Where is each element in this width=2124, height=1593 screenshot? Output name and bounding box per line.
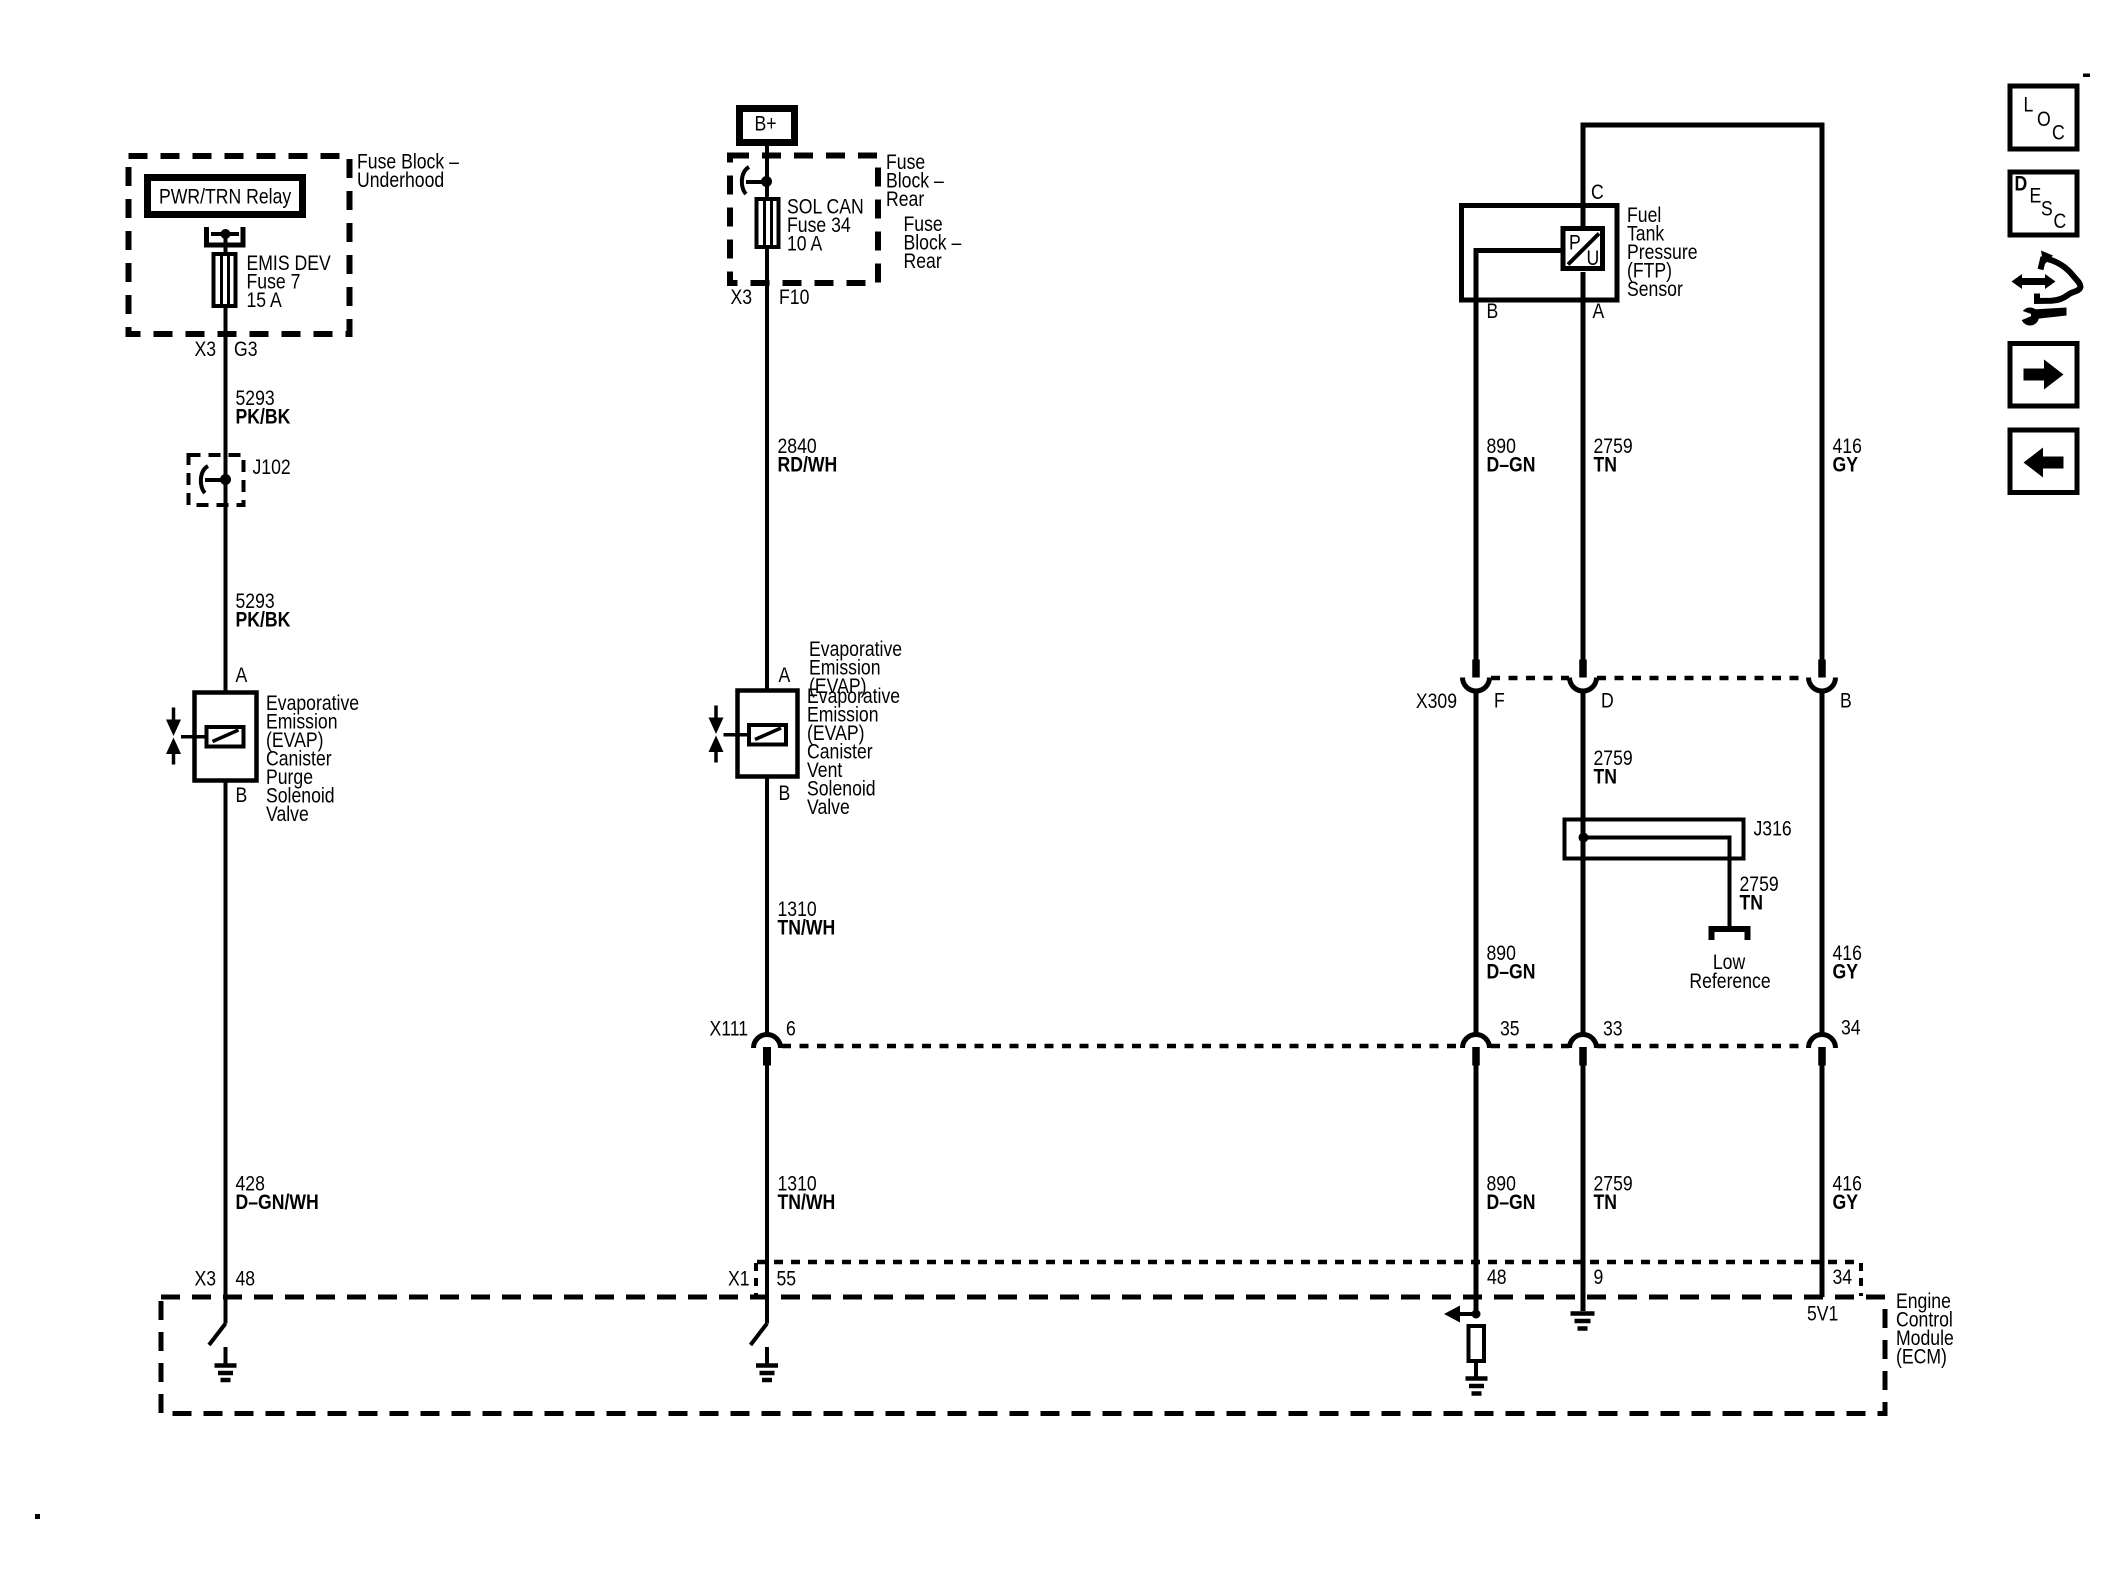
vent valve symbol [714, 706, 718, 719]
svg-text:A: A [236, 664, 248, 688]
purge solenoid coil [207, 727, 244, 747]
wire 890 D-GN X111 to ECM 48 [1474, 1066, 1479, 1314]
fuse F34 SOL CAN [757, 199, 779, 247]
FTP transducer P/U symbol [1563, 229, 1603, 269]
svg-text:C: C [2052, 121, 2065, 145]
svg-text:D–GN: D–GN [1487, 1191, 1536, 1215]
svg-text:E: E [2030, 184, 2042, 208]
vent solenoid coil [749, 725, 786, 745]
splice J316 node [1579, 833, 1589, 843]
svg-text:55: 55 [777, 1267, 797, 1291]
svg-text:O: O [2037, 108, 2051, 132]
relay PWR/TRN box [148, 178, 303, 215]
jump-to icon wrench [2021, 308, 2039, 326]
connector X111 pin 34 [1809, 1035, 1836, 1049]
wire fuse 34 to vent solenoid A [765, 247, 769, 690]
wire 890 D-GN X309 to X111 [1474, 691, 1479, 1036]
svg-text:PK/BK: PK/BK [236, 405, 291, 429]
X1 right vertical dashed tick [1859, 1263, 1863, 1296]
svg-text:B: B [236, 784, 248, 808]
svg-text:Valve: Valve [266, 803, 309, 827]
X309 terminal F [1472, 660, 1480, 678]
low reference terminal [1712, 929, 1748, 940]
svg-text:48: 48 [236, 1267, 256, 1291]
X309 terminal B [1818, 660, 1826, 678]
svg-text:A: A [779, 664, 791, 688]
svg-text:X1: X1 [728, 1267, 750, 1291]
ECM driver switch 55 (col2) [751, 1324, 768, 1346]
ECM ground pin 9 [1571, 1311, 1595, 1316]
stray mark bottom left [35, 1514, 40, 1519]
svg-text:J316: J316 [1754, 817, 1792, 841]
wire relay to fuse [224, 236, 228, 255]
svg-text:D–GN/WH: D–GN/WH [236, 1191, 319, 1215]
svg-text:B: B [1487, 300, 1499, 324]
svg-text:X3: X3 [730, 286, 752, 310]
svg-text:Underhood: Underhood [357, 169, 444, 193]
svg-text:Reference: Reference [1689, 970, 1770, 994]
svg-text:GY: GY [1833, 960, 1859, 984]
svg-text:TN: TN [1594, 765, 1617, 789]
ECM ground col1 [224, 1347, 228, 1366]
svg-text:TN/WH: TN/WH [778, 1191, 836, 1215]
X309 terminal D [1579, 660, 1587, 678]
svg-text:L: L [2024, 93, 2034, 117]
wire FTP pin C top loop to 416 GY [1583, 125, 1822, 660]
svg-text:34: 34 [1841, 1016, 1861, 1040]
svg-text:X309: X309 [1416, 690, 1457, 714]
wire vent solenoid B to X111 [765, 777, 769, 1036]
connector X111 pin 33 [1570, 1035, 1597, 1049]
svg-text:RD/WH: RD/WH [778, 453, 838, 477]
svg-text:10 A: 10 A [787, 232, 822, 256]
connector X309 dashed line [1491, 676, 1569, 681]
prev page arrow [2024, 448, 2064, 478]
DESC icon box [2010, 172, 2077, 235]
jump-to icon curved arrow outline [2037, 259, 2081, 301]
svg-text:S: S [2041, 197, 2053, 221]
svg-text:C: C [2054, 210, 2067, 234]
X1 vertical dashed tick [754, 1263, 758, 1296]
svg-text:TN/WH: TN/WH [778, 916, 836, 940]
purge valve symbol [172, 708, 176, 721]
wire J316 branch [1584, 838, 1730, 927]
svg-text:P: P [1569, 231, 1581, 255]
svg-text:J102: J102 [253, 456, 291, 480]
wire fuse to solenoid A [224, 306, 228, 692]
svg-text:Rear: Rear [886, 188, 925, 212]
svg-text:35: 35 [1500, 1017, 1520, 1041]
svg-text:PK/BK: PK/BK [236, 608, 291, 632]
battery feed B+ box [740, 109, 795, 143]
svg-text:F10: F10 [779, 286, 810, 310]
svg-text:D–GN: D–GN [1487, 960, 1536, 984]
connector X111 pin 35 [1463, 1035, 1490, 1049]
jump-to icon arrowhead [2041, 251, 2053, 266]
svg-text:A: A [1593, 300, 1605, 324]
EVAP canister vent solenoid valve box [738, 691, 798, 777]
wire X111-6 to ECM 55 [765, 1066, 769, 1324]
fuse block underhood dashed box [129, 156, 350, 334]
svg-text:Rear: Rear [904, 250, 943, 274]
svg-text:X3: X3 [194, 1267, 216, 1291]
svg-text:B: B [779, 782, 791, 806]
svg-text:GY: GY [1833, 453, 1859, 477]
svg-text:D–GN: D–GN [1487, 453, 1536, 477]
svg-text:B: B [1840, 689, 1852, 713]
svg-text:5V1: 5V1 [1807, 1302, 1838, 1326]
svg-text:X111: X111 [709, 1017, 748, 1041]
svg-text:6: 6 [786, 1017, 796, 1041]
svg-text:Valve: Valve [807, 796, 850, 820]
connector X1 dashed line [757, 1260, 1861, 1265]
splice J102 dashed box [189, 455, 244, 505]
svg-text:D: D [1601, 689, 1614, 713]
bus bar splice symbol [742, 167, 749, 194]
FTP sensor box [1462, 206, 1618, 301]
svg-text:C: C [1591, 181, 1604, 205]
prev page icon box [2010, 430, 2077, 493]
svg-text:TN: TN [1740, 891, 1763, 915]
svg-text:48: 48 [1487, 1266, 1507, 1290]
svg-text:D: D [2015, 172, 2028, 196]
stray mark top right [2083, 74, 2090, 78]
svg-text:PWR/TRN Relay: PWR/TRN Relay [159, 185, 291, 209]
svg-text:15 A: 15 A [247, 289, 282, 313]
svg-text:X3: X3 [194, 338, 216, 362]
svg-text:G3: G3 [234, 338, 258, 362]
ECM ground pin 48 [1474, 1361, 1478, 1378]
wire B+ to bus [765, 146, 769, 182]
ECM driver switch 48 (col1) [224, 1297, 228, 1324]
svg-text:TN: TN [1594, 1191, 1617, 1215]
wire FTP pin B [1476, 251, 1563, 661]
X111 harness dashed line [782, 1044, 1463, 1049]
svg-text:9: 9 [1594, 1266, 1604, 1290]
fuse F7 EMIS DEV [214, 254, 236, 306]
wire 416 GY X309 to X111 [1820, 691, 1825, 1036]
relay contact terminal [207, 227, 244, 245]
svg-text:B+: B+ [755, 112, 777, 136]
connector X111 pin 6 [754, 1035, 781, 1049]
svg-text:(ECM): (ECM) [1896, 1345, 1947, 1369]
LOC icon box [2010, 86, 2077, 149]
EVAP canister purge solenoid valve box [195, 693, 257, 781]
fuse block rear dashed box [730, 156, 878, 284]
ECM ground col2 [765, 1347, 769, 1366]
next page arrow [2024, 360, 2064, 390]
svg-text:33: 33 [1603, 1017, 1623, 1041]
splice J316 box [1565, 820, 1744, 859]
wire solenoid B to ECM [224, 781, 228, 1298]
svg-text:TN: TN [1594, 453, 1617, 477]
ECM pull resistor [1469, 1326, 1485, 1361]
ECM input arrow pin 48 [1459, 1312, 1476, 1316]
wire 2759 TN X111 to ECM 9 [1581, 1066, 1586, 1312]
splice J102 symbol [201, 466, 208, 493]
ECM dashed box [161, 1297, 1885, 1414]
svg-text:34: 34 [1833, 1266, 1853, 1290]
wire FTP pin A [1581, 272, 1586, 660]
wire splice to fuse [765, 182, 769, 200]
svg-text:GY: GY [1833, 1191, 1859, 1215]
wire 2759 TN X309 to X111 [1581, 691, 1586, 1036]
svg-text:F: F [1494, 689, 1505, 713]
jump-to icon double arrow [2012, 274, 2056, 289]
wire 416 GY X111 to ECM 34 [1820, 1066, 1825, 1298]
svg-text:Sensor: Sensor [1627, 278, 1683, 302]
svg-text:U: U [1587, 247, 1600, 271]
next page icon box [2010, 344, 2077, 407]
